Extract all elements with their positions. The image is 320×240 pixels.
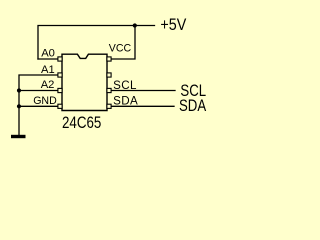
svg-text:A0: A0 [41,47,55,59]
svg-text:SDA: SDA [113,94,138,107]
svg-text:24C65: 24C65 [62,115,101,132]
svg-text:SDA: SDA [179,98,206,116]
svg-text:A2: A2 [41,79,55,91]
svg-text:VCC: VCC [109,43,132,55]
svg-text:+5V: +5V [160,16,187,34]
svg-text:GND: GND [33,95,57,107]
svg-text:SCL: SCL [113,79,137,92]
svg-text:A1: A1 [41,64,55,76]
